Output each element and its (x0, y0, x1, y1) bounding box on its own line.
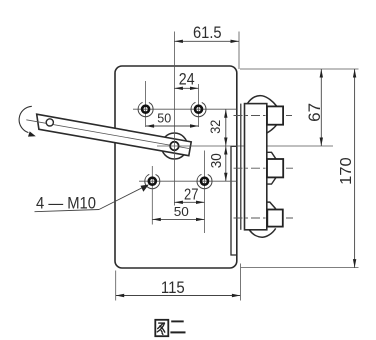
holes top centerline horizontal (133, 108, 236, 110)
svg-text:67: 67 (305, 103, 324, 122)
svg-text:27: 27 (184, 187, 198, 204)
hole bottom-left centerline vertical (151, 166, 153, 225)
svg-text:115: 115 (161, 278, 185, 297)
dim 32 / 30 line (225, 109, 227, 181)
svg-text:170: 170 (338, 157, 355, 185)
svg-text:24: 24 (179, 70, 195, 89)
label 4-M10 underline (35, 210, 100, 212)
svg-text:50: 50 (174, 204, 189, 219)
bolt 3 dashed centerline (234, 217, 294, 219)
svg-text:30: 30 (208, 153, 225, 168)
bolt 2 washer (267, 152, 276, 159)
hole bottom-left M10 (145, 174, 160, 189)
hole bottom-right centerline vertical (204, 151, 206, 234)
pivot centerline horizontal (157, 145, 333, 147)
bolt 1 head (267, 106, 283, 124)
svg-text:4 — M10: 4 — M10 (36, 195, 96, 213)
hole top-right centerline vertical (198, 84, 200, 127)
lever end hole (46, 119, 53, 126)
dim 115 extension left (115, 271, 117, 301)
pivot boss circle (161, 133, 187, 159)
rotation direction arc (19, 106, 32, 132)
bolt 2 head (267, 159, 283, 177)
dim 115 extension right (239, 264, 241, 301)
pivot pin hole (170, 142, 179, 151)
bottom extension line (241, 267, 359, 269)
svg-text:50: 50 (157, 111, 171, 125)
holes bottom centerline horizontal (139, 180, 236, 182)
svg-text:61.5: 61.5 (193, 23, 222, 42)
dim 61.5 extension right (238, 32, 240, 70)
pivot / extension centerline vertical (173, 32, 175, 206)
bolt 1 dashed centerline (234, 115, 293, 117)
dim 27 line (174, 201, 204, 203)
dim 115 line (116, 295, 241, 297)
svg-text:32: 32 (207, 120, 223, 134)
dim 50 bottom line (152, 218, 204, 220)
insulator dome arc bolt 3 (249, 228, 275, 237)
mounting plate outline (115, 66, 237, 268)
hole top-left M10 (138, 102, 153, 117)
operating lever (37, 114, 192, 156)
leader 4-M10 line (99, 185, 147, 209)
bolt 3 head (267, 210, 283, 227)
dim 50 top line (146, 125, 199, 127)
dim 24 line (174, 87, 198, 89)
rotation arrowhead (28, 131, 36, 136)
figure caption 二 (drawn strokes) (170, 321, 185, 332)
insulator dome arc bolt 1 (248, 96, 277, 106)
terminal bar (245, 104, 267, 230)
dim 170 line (354, 69, 356, 268)
dim 67 line (320, 69, 322, 146)
bolt 2 dashed centerline (234, 167, 294, 169)
bar inner edge line (240, 104, 242, 230)
bolt 1 lower chamfer (267, 125, 277, 133)
lever axis centerline (26, 120, 191, 149)
top extension line (240, 68, 359, 70)
hidden bracket edge behind plate (231, 146, 236, 255)
figure caption 图 (drawn strokes) (155, 320, 168, 336)
bolt 3 upper chamfer (267, 202, 276, 209)
hole bottom-right M10 (197, 174, 212, 189)
hole top-right M10 (191, 102, 206, 117)
hole top-left centerline vertical (145, 81, 147, 127)
dim 61.5 line (174, 40, 239, 42)
